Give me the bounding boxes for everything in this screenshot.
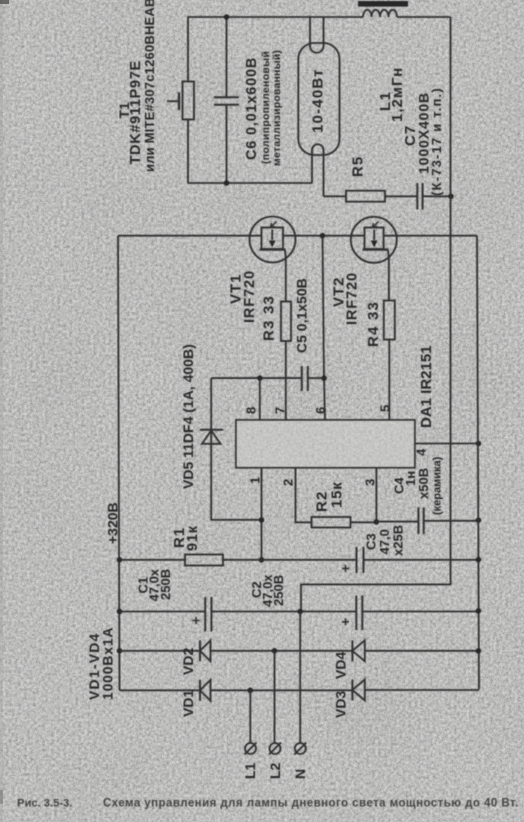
transformer T1 stub lead bbox=[167, 100, 179, 102]
capacitor C6 plates bbox=[214, 97, 239, 105]
wire: pin3 bbox=[375, 468, 377, 523]
wire: bootstrap bus y=378 bbox=[211, 377, 324, 379]
transistor VT1 gate electrode bbox=[260, 248, 286, 250]
diode VD1 bbox=[199, 680, 201, 701]
node: rail/C1 junction bbox=[117, 609, 123, 615]
wire: doubler bus y=611.6 (C1,C2) bbox=[120, 611, 479, 613]
wire: lamp to R5 bbox=[324, 195, 347, 197]
wire: R4 to pin5 bbox=[388, 340, 390, 421]
wire: T1 loop left vertical bbox=[187, 17, 189, 183]
node: rail/supply bus junction bbox=[117, 557, 123, 563]
wire: R3 to pin7 bbox=[285, 341, 287, 420]
wire: rail B right vertical bbox=[477, 236, 479, 690]
capacitor C2 polarity mark bbox=[342, 618, 349, 625]
diode VD5 bbox=[200, 429, 224, 431]
wire: L1 to right rail bbox=[397, 16, 451, 18]
wire: top horizontal bus y=17 bbox=[188, 16, 364, 18]
capacitor C5 plates bbox=[302, 366, 308, 391]
lamp top filament and leads bbox=[310, 17, 324, 53]
wire: CT node to C4 bbox=[376, 521, 418, 523]
inductor L1 winding bbox=[363, 10, 397, 17]
node: C4 rail junction bbox=[476, 517, 482, 523]
node: pin4 rail junction bbox=[476, 441, 482, 447]
transistor VT2 body bbox=[365, 228, 384, 250]
wire: C7 to right rail bbox=[423, 195, 451, 197]
wire: R2 to pin3 node bbox=[351, 521, 377, 523]
wire: half-bridge drain-source bus y=235.7 bbox=[118, 235, 477, 237]
node: half-bridge midpoint bbox=[320, 233, 326, 239]
diode VD3 bbox=[351, 680, 353, 701]
diode VD2 bbox=[199, 640, 201, 661]
capacitor C7 plates bbox=[417, 183, 422, 210]
node: L2 tap junction bbox=[272, 648, 278, 654]
wire: rail A right vertical with bend to mains mid node bbox=[301, 17, 451, 612]
wire: R5 to C7 bbox=[385, 195, 417, 197]
node: pin3/CT junction bbox=[374, 519, 380, 525]
wire: supply bus y=560 (R1,C3) bbox=[120, 559, 479, 561]
node: row2 rail junction bbox=[476, 648, 482, 654]
terminal N bbox=[295, 743, 306, 754]
transistor VT1 body bbox=[262, 228, 284, 250]
inductor L1 core bbox=[358, 1, 408, 7]
resistor R4 body bbox=[384, 301, 395, 340]
resistor R2 body bbox=[312, 517, 351, 528]
node: rail/row2 junction bbox=[117, 648, 123, 654]
node: mains mid node M bbox=[297, 609, 303, 615]
transformer T1 body bbox=[183, 82, 195, 120]
capacitor C4 plates bbox=[418, 508, 423, 535]
capacitor C2 plates bbox=[356, 596, 362, 631]
transformer T1 core bar bbox=[178, 93, 180, 111]
wire: terminal N drop bbox=[299, 612, 301, 744]
node: pin1 to supply bus junction bbox=[259, 557, 265, 563]
node: VS node on bootstrap wire bbox=[321, 375, 327, 381]
transistor VT2 top arrow mark bbox=[373, 222, 379, 228]
capacitor C1 polarity mark bbox=[193, 617, 200, 624]
transistor VT2 source arrow bbox=[373, 230, 375, 241]
capacitor C3 plates bbox=[357, 547, 364, 573]
node: C3 rail junction bbox=[476, 557, 482, 563]
capacitor C6 vertical leads bbox=[226, 17, 228, 183]
transistor VT2 circle bbox=[351, 217, 397, 263]
node: VD5 to pin1 junction bbox=[259, 517, 265, 523]
node: C6 bottom junction bbox=[224, 180, 230, 186]
transistor VT1 source arrow bbox=[271, 230, 273, 241]
terminal L2 bbox=[270, 743, 281, 754]
wire: pin8 bbox=[259, 378, 261, 420]
wire: VD5 branch vertical bbox=[211, 378, 261, 520]
wire: VT1 gate to R3 bbox=[284, 250, 287, 302]
wire: terminal L2 drop bbox=[274, 651, 276, 743]
resistor R5 body bbox=[346, 191, 385, 202]
capacitor C3 polarity mark bbox=[342, 565, 349, 572]
wire: +320V left rail bbox=[118, 236, 120, 691]
node: VB node bbox=[257, 375, 263, 381]
capacitor C1 plates bbox=[205, 597, 211, 632]
node: C6 top junction bbox=[224, 14, 230, 20]
wire: T1/C6 loop bottom y=183 bbox=[188, 182, 313, 184]
diode VD4 bbox=[351, 640, 353, 661]
transistor VT1 top arrow mark bbox=[271, 222, 277, 228]
IC DA1 IR2151 body bbox=[236, 420, 415, 468]
resistor R1 body bbox=[185, 555, 223, 566]
lamp tube envelope 10-40W bbox=[298, 43, 339, 155]
wire: pin4 COM to rail B bbox=[415, 443, 479, 445]
resistor R3 body bbox=[281, 302, 291, 342]
wire: terminal L1 drop bbox=[249, 690, 251, 743]
wire: pin1 to R1/C3 bus bbox=[261, 468, 263, 560]
wire: midpoint to pin6 bbox=[323, 236, 326, 420]
wire: pin2 to R2 bbox=[296, 468, 312, 523]
terminal L1 bbox=[245, 743, 256, 754]
wire: C4 to rail B bbox=[424, 520, 479, 522]
wire: bridge row2 y=650.8 bbox=[120, 650, 479, 652]
wire: bridge row3 y=690 bbox=[120, 689, 480, 691]
node: L1 tap junction bbox=[248, 688, 254, 694]
transistor VT2 gate electrode bbox=[363, 248, 389, 250]
transistor VT1 circle bbox=[250, 217, 296, 263]
lamp bottom filament and leads bbox=[312, 144, 324, 196]
node: C2 rail junction bbox=[476, 608, 482, 614]
node: C7 right rail junction bbox=[448, 194, 454, 200]
wire: VT2 gate to R4 bbox=[387, 250, 390, 301]
